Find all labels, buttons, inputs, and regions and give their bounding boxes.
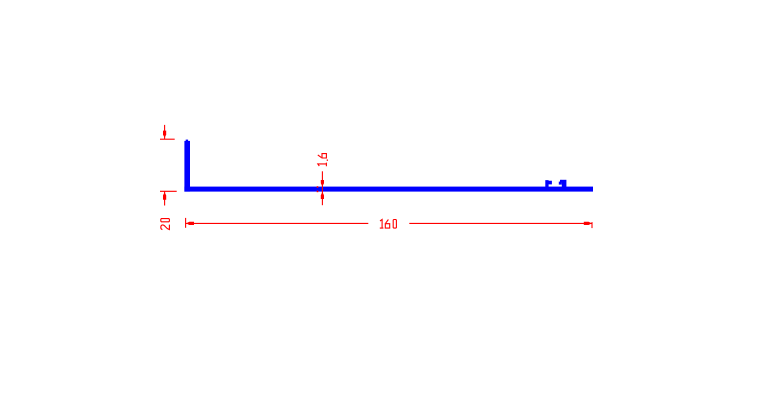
dim text 20 (rotated) xyxy=(161,219,170,230)
dim 20 bottom extension line xyxy=(160,190,177,192)
dim 20 top arrowhead blob xyxy=(163,131,166,137)
dim 160 line right segment xyxy=(409,222,592,224)
dim 20 top arrow stem xyxy=(164,125,166,139)
right clip hook on flange xyxy=(559,180,567,188)
profile horizontal flange xyxy=(184,187,593,192)
dim 160 left arrowhead blob xyxy=(187,222,194,225)
dim 160 left extension line xyxy=(185,218,187,228)
dim 20 top extension line xyxy=(160,138,175,140)
dim text 1.6 (rotated) xyxy=(318,154,328,167)
profile vertical leg xyxy=(184,141,190,192)
dim text 160 xyxy=(380,220,397,229)
dim 1.6 left tick upper dot xyxy=(317,186,319,188)
dim 1.6 lower arrowhead blob xyxy=(321,193,324,199)
profile vertical leg top bump xyxy=(186,140,188,142)
dim 1.6 left tick lower dot xyxy=(317,191,319,193)
dim 20 bottom arrowhead blob xyxy=(163,193,166,200)
dim 160 line left segment xyxy=(186,222,369,224)
dim 1.6 upper arrowhead blob xyxy=(321,180,324,185)
dim 1.6 vertical line xyxy=(321,171,323,205)
dim 160 right arrowhead blob xyxy=(584,222,591,225)
dim 160 right extension line xyxy=(591,222,593,228)
dim 20 bottom arrow stem xyxy=(164,191,166,205)
left clip hook on flange xyxy=(545,180,552,187)
